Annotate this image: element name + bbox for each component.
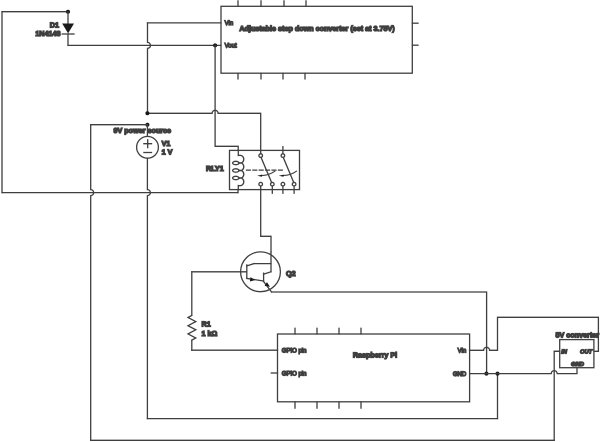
Q2 base bar 2: [263, 273, 265, 281]
conv pin stub bottom 1: [237, 73, 239, 79]
relay RLY1: [230, 147, 300, 194]
svg-text:1N4148: 1N4148: [35, 29, 60, 38]
voltage source V1: [137, 125, 159, 419]
transistor Q2: [241, 252, 281, 292]
Q2 collector lead inside: [270, 252, 272, 272]
wire bottom rail 1: [147, 418, 497, 420]
relay switch 1 top pin: [259, 154, 263, 158]
relay switch 2 blade: [283, 157, 294, 182]
node diode anode junction dot: [66, 10, 70, 14]
wire coil bottom pin: [237, 190, 239, 193]
svg-text:1 V: 1 V: [162, 148, 173, 157]
relay coil eye loop 1: [233, 161, 239, 164]
Q2 emitter 1 with arrow: [247, 278, 264, 281]
relay switch 2 top pin: [281, 154, 285, 158]
conv pin stub bottom 4: [304, 73, 306, 79]
Q2 emitter 2 with arrow: [264, 282, 272, 293]
pi pin stub top 2: [316, 328, 318, 334]
svg-text:R1: R1: [202, 319, 211, 328]
node Vout junction dot: [213, 43, 217, 47]
svg-text:5V converter: 5V converter: [556, 330, 600, 339]
wire rail1 up to ground node: [497, 374, 499, 419]
relay switch 1 arrow: [262, 171, 275, 175]
conv pin stub top 1: [237, 1, 239, 6]
pi pin stub bottom 2: [316, 402, 318, 408]
relay switch 1 blade: [261, 157, 272, 182]
pi pin stub bottom 3: [338, 402, 340, 408]
wire 9V+ to switch common, hop over x=215.1: [147, 110, 260, 153]
wire bottom rail 2: [91, 439, 555, 441]
svg-text:9V power source: 9V power source: [114, 126, 172, 135]
conv pin stub top 2: [260, 1, 262, 6]
5V converter box: [554, 340, 594, 368]
relay pole 4 bottom pin: [292, 182, 296, 186]
relay pole 1 bottom pin: [259, 182, 263, 186]
wire R1 to GPIO pin: [192, 349, 278, 351]
wire rail2 up to 5V converter IN: [554, 351, 560, 440]
pi pin stub top 3: [338, 328, 340, 334]
svg-text:Adjustable step down converter: Adjustable step down converter (set at 3…: [239, 24, 395, 33]
relay dashed actuation line: [247, 169, 284, 171]
Raspberry Pi box: [271, 328, 469, 408]
wire Q2 base to R1: [192, 271, 247, 273]
svg-text:Q2: Q2: [286, 269, 296, 278]
relay coil: [238, 150, 243, 189]
svg-text:Raspberry Pi: Raspberry Pi: [353, 351, 397, 360]
Q2 base bar 1: [246, 265, 248, 279]
conv pin stub right 1: [412, 22, 418, 24]
relay coil eye loop 2: [233, 169, 239, 172]
conv pin stub bottom 3: [282, 73, 284, 79]
svg-text:Vout: Vout: [225, 43, 237, 49]
svg-text:Vin: Vin: [225, 21, 234, 27]
conv pin stub right 2: [412, 44, 418, 46]
5V IN stub: [554, 350, 560, 352]
wire Vout to relay coil top: [215, 45, 238, 150]
relay pin stub top 2: [282, 147, 284, 154]
relay box: [230, 150, 300, 189]
wire ground: pi GND to 5V GND with hop over x=554.2: [470, 368, 577, 374]
pi pin stub top 4: [360, 328, 362, 334]
resistor R1: [188, 272, 196, 350]
wire coil return y=192.6: [2, 192, 238, 194]
wire left edge vertical: [1, 12, 3, 193]
svg-text:IN: IN: [561, 349, 568, 355]
diode D1: [62, 12, 74, 46]
wire pi Vin to 5V OUT with hop over x=486.6: [470, 317, 599, 351]
relay switch 2 arrow: [283, 171, 296, 175]
node emitter ground junction dot: [484, 372, 488, 376]
svg-text:GND: GND: [453, 372, 467, 378]
svg-text:GND: GND: [571, 362, 585, 368]
svg-text:GPIO pin: GPIO pin: [282, 372, 307, 378]
svg-text:Vin: Vin: [458, 349, 467, 355]
node 9V top junction dot: [145, 111, 149, 115]
relay pole 3 bottom pin: [281, 182, 285, 186]
svg-text:1 kΩ: 1 kΩ: [202, 329, 218, 338]
svg-text:GPIO pin: GPIO pin: [282, 349, 307, 355]
wire Q2 emitter to ground node: [272, 292, 487, 374]
node rail1 ground junction dot: [496, 372, 500, 376]
relay pin stub bottom 3: [282, 186, 284, 193]
pi GPIO pin 2 stub: [271, 372, 277, 374]
conv pin stub top 4: [305, 1, 307, 6]
relay coil eye loop 3: [233, 176, 239, 179]
node 9V left branch junction dot: [145, 123, 149, 127]
wire Vin feed horizontal: [148, 22, 222, 24]
wire switch1 to Q2 collector: [261, 186, 271, 252]
wire Vin feed vertical with hop over y=45.4: [148, 23, 151, 113]
relay pole 2 bottom pin: [271, 182, 275, 186]
adjustable step down converter box: [221, 1, 418, 79]
pi pin stub bottom 4: [360, 402, 362, 408]
svg-text:OUT: OUT: [580, 349, 593, 355]
Q2 bar2 collector diag: [264, 272, 271, 274]
wire 9V+ left branch horizontal: [91, 124, 148, 126]
wire top rail from left edge to diode anode: [2, 11, 68, 13]
conv pin stub bottom 2: [260, 73, 262, 79]
relay pin stub bottom 4: [293, 186, 295, 193]
conv pin stub top 3: [283, 1, 285, 6]
svg-text:RLY1: RLY1: [206, 164, 224, 173]
wire diode cathode to Vout pin: [68, 44, 221, 46]
relay pin stub bottom 2: [271, 186, 273, 193]
pi pin stub top 1: [294, 328, 296, 334]
wire left branch vertical down to bottom rail 2 with hop at y=192.6: [91, 125, 94, 441]
pi pin stub bottom 1: [294, 402, 296, 408]
